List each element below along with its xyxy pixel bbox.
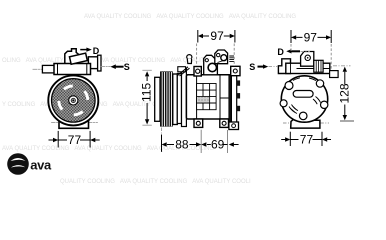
wire: dash-dot at foot left xyxy=(52,121,59,123)
svg-text:88: 88 xyxy=(175,138,189,152)
dimension 115 (vertical) xyxy=(140,70,154,125)
svg-text:128: 128 xyxy=(338,83,352,103)
pulley hub plate xyxy=(155,77,160,121)
rear plate xyxy=(231,74,236,124)
pulley belt face (crosshatched) xyxy=(52,79,96,123)
bottom rear lug xyxy=(229,122,239,130)
svg-text:D: D xyxy=(277,47,284,57)
svg-text:77: 77 xyxy=(68,133,82,147)
dimension 128 (vertical right) xyxy=(333,66,354,121)
clutch slot arcs (white) xyxy=(59,86,88,115)
pulley ribbed belt section xyxy=(160,71,173,126)
svg-text:AVA QUALITY COOLING AVA QUAL: AVA QUALITY COOLING AVA QUALITY COOLING … xyxy=(84,14,296,20)
svg-text:QUALITY COOLING AVA QUALITY: QUALITY COOLING AVA QUALITY COOLING AVA … xyxy=(60,179,251,185)
svg-text:S: S xyxy=(124,62,130,72)
center manifold block xyxy=(204,55,218,75)
tilted label plate xyxy=(69,53,87,64)
bolt hole NW xyxy=(285,82,293,90)
hub xyxy=(69,96,78,105)
bottom lug 1 xyxy=(194,119,203,127)
arrow from S label xyxy=(115,66,122,68)
wire: dash-dot foot right xyxy=(320,122,329,124)
svg-text:S: S xyxy=(249,62,255,72)
wire: dashed extension from 97 right tick xyxy=(233,44,235,66)
casting arcs right xyxy=(316,97,321,103)
casting arc top-right xyxy=(309,78,316,81)
left bolt boss xyxy=(42,65,54,73)
main body xyxy=(186,75,230,119)
dimension 88 / 69 (middle bottom) xyxy=(162,130,239,153)
svg-text:69: 69 xyxy=(211,138,225,152)
pulley right cap xyxy=(173,74,178,125)
casting arcs bottom-left xyxy=(289,107,297,114)
D port flange plate xyxy=(98,55,101,71)
wire: dash-dot at foot right xyxy=(89,121,98,123)
arrow to D port xyxy=(81,49,88,51)
dimension 77 (right bottom) xyxy=(281,132,331,147)
rear dark band xyxy=(228,76,231,124)
casting arc top-left xyxy=(293,78,300,81)
center name plate xyxy=(293,91,313,98)
arrow from D to discharge port xyxy=(291,50,300,52)
mounting foot xyxy=(59,121,89,129)
rear plate bolt tabs xyxy=(237,80,240,85)
top-right mounting lug xyxy=(231,66,240,75)
svg-text:115: 115 xyxy=(140,83,154,102)
right side tab xyxy=(330,71,339,78)
dimension 97 (right top) xyxy=(291,30,331,45)
hatched grid cell xyxy=(197,97,209,103)
wire: dashed extension right-97 right tick xyxy=(330,44,332,70)
bolt hole NE xyxy=(316,80,323,87)
wire: dashed extension from 97 left tick xyxy=(196,44,198,67)
discharge port block xyxy=(301,52,314,67)
svg-text:ava: ava xyxy=(30,157,52,172)
suction pipe elbow xyxy=(65,49,79,64)
AVA logo (bottom-left) xyxy=(7,153,52,175)
rear housing circle xyxy=(281,76,327,122)
top housing plate xyxy=(286,63,330,73)
D port fitting block xyxy=(88,57,98,69)
bolt hole W xyxy=(280,100,287,107)
top housing xyxy=(54,64,91,75)
bolt hole S xyxy=(299,112,307,120)
mounting foot xyxy=(291,119,320,128)
top-left mounting lug xyxy=(194,67,201,77)
wire: dashed extension right-97 left tick xyxy=(290,44,292,53)
thread marks xyxy=(229,56,234,61)
arrow from S to suction port xyxy=(258,66,264,68)
body internal grid xyxy=(197,84,217,110)
svg-text:97: 97 xyxy=(210,29,224,43)
front head plate 1 xyxy=(177,74,181,124)
D manifold block xyxy=(215,50,228,64)
ribbed block right of port xyxy=(314,60,323,72)
faint watermark rows xyxy=(2,14,296,185)
svg-text:97: 97 xyxy=(304,31,318,45)
diagonal strut arm xyxy=(177,67,190,76)
suction flange (stepped) xyxy=(278,59,290,74)
wire: dash-dot to S arrow xyxy=(101,66,110,68)
svg-text:77: 77 xyxy=(300,133,314,147)
wire: dash-dot D to port xyxy=(301,51,311,53)
wire: dash-dot extension below pulley xyxy=(161,128,163,153)
pulley outer ring xyxy=(48,75,98,125)
front head top tab xyxy=(178,67,186,72)
dimension 97 (middle top) xyxy=(198,29,235,43)
dimension 77 (left view) xyxy=(49,131,99,147)
top small bolt cylinder xyxy=(187,55,192,60)
bolt hole E xyxy=(321,101,328,108)
wire: dash-dot S to flange xyxy=(269,66,279,68)
wire: dash-dot foot left xyxy=(283,122,291,124)
body internal rear vertical line xyxy=(220,75,229,119)
front head plate 2 xyxy=(182,69,187,127)
bottom lug 2 xyxy=(220,119,229,127)
wire: dash-dot centerline left of boss xyxy=(33,68,42,70)
body internal vertical line xyxy=(196,75,198,119)
